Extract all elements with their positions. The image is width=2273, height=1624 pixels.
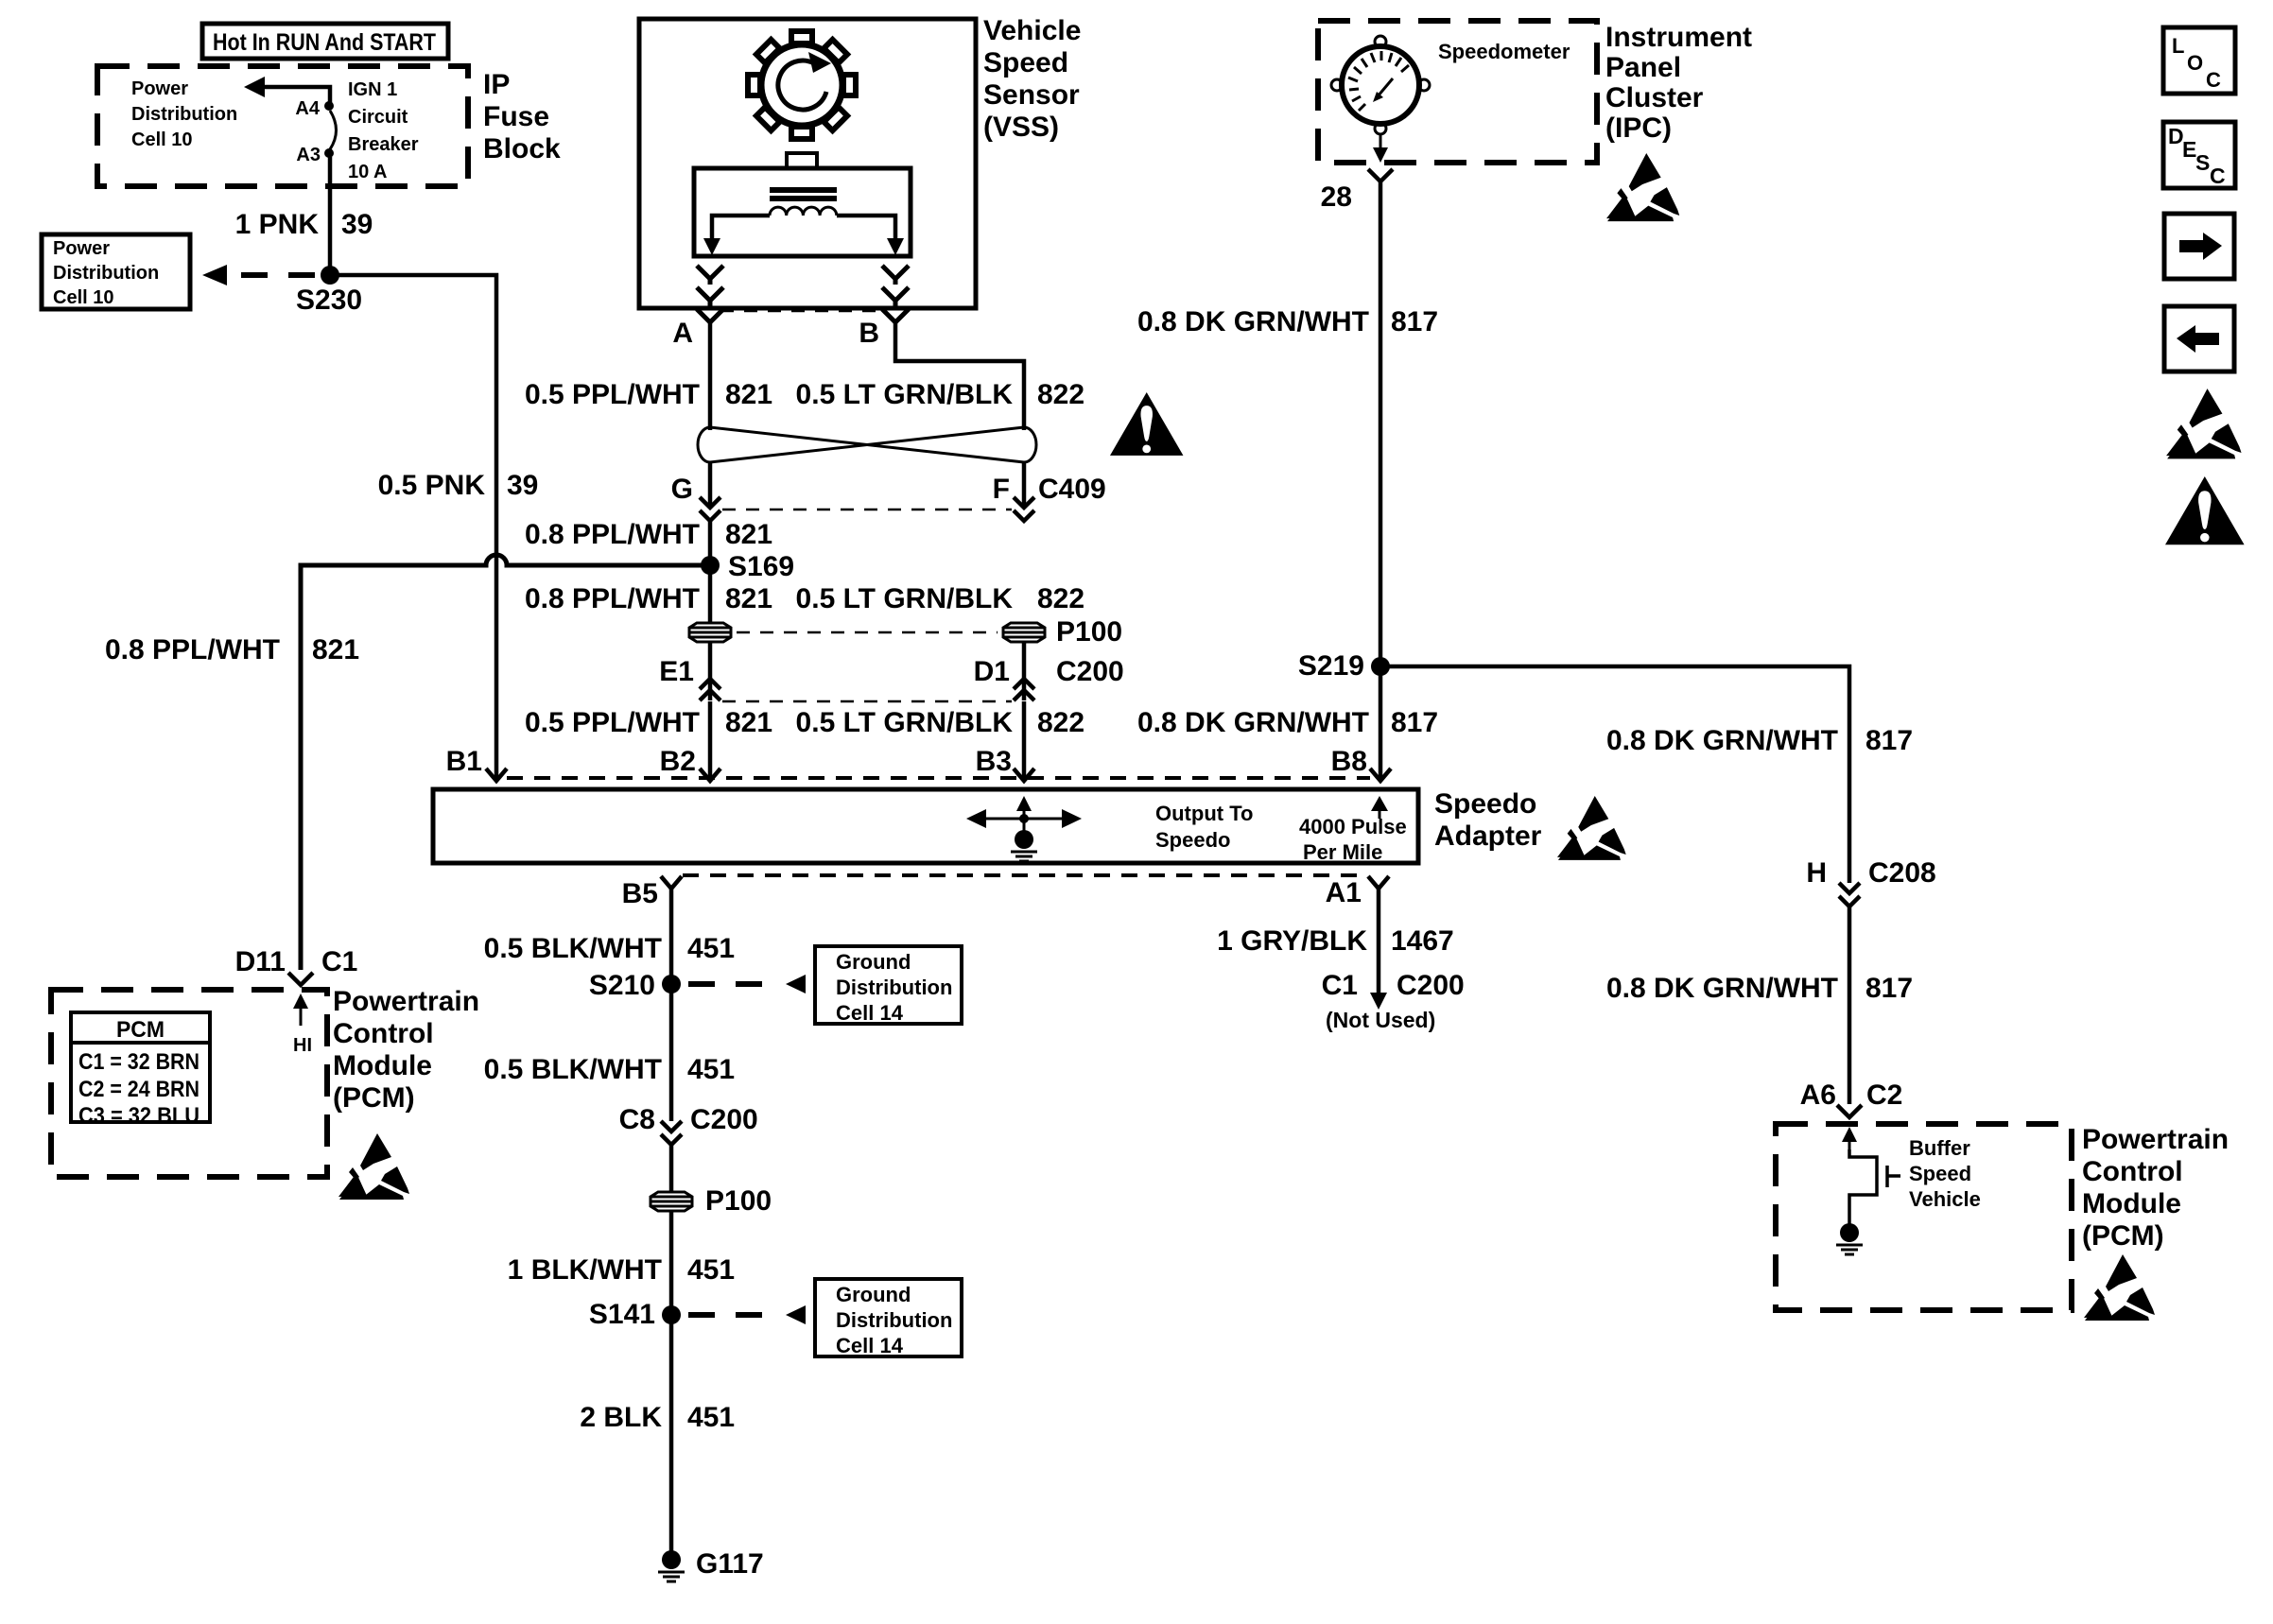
Ground Distribution Cell 14 box (lower) <box>815 1279 962 1357</box>
svg-text:Breaker: Breaker <box>348 134 419 155</box>
wire P100 to D1 <box>1022 642 1027 700</box>
svg-text:4000 Pulse: 4000 Pulse <box>1299 815 1407 838</box>
svg-text:0.5 LT GRN/BLK: 0.5 LT GRN/BLK <box>796 583 1014 614</box>
svg-text:Speedo: Speedo <box>1434 788 1536 820</box>
pin A4 <box>324 101 334 111</box>
svg-text:817: 817 <box>1391 707 1438 738</box>
HI input arrow inside PCM <box>300 1002 303 1026</box>
svg-text:C200: C200 <box>1397 970 1465 1001</box>
ESD symbol (PCM left) <box>338 1133 409 1200</box>
svg-text:C: C <box>2206 68 2221 92</box>
svg-text:C1: C1 <box>1322 970 1358 1001</box>
connector C200 pin E1 chevrons <box>700 679 720 700</box>
svg-text:C1: C1 <box>321 946 357 977</box>
connector A1 chevron <box>1368 876 1389 889</box>
warning triangle (twisted pair note) <box>1110 392 1183 456</box>
svg-text:Powertrain: Powertrain <box>2082 1124 2229 1155</box>
svg-text:2 BLK: 2 BLK <box>580 1402 662 1433</box>
wire G to S169 <box>708 521 713 565</box>
svg-text:C: C <box>2210 164 2226 188</box>
connector C409 pin F chevrons <box>1014 497 1034 521</box>
svg-text:D1: D1 <box>974 656 1010 687</box>
connector C2 pin A6 chevron <box>1837 1105 1862 1117</box>
svg-text:C3 = 32 BLU: C3 = 32 BLU <box>78 1103 200 1129</box>
svg-text:817: 817 <box>1865 973 1913 1004</box>
buffer input arrow inside PCM <box>1848 1135 1851 1149</box>
wire 28 to S219 <box>1379 181 1383 666</box>
svg-text:S141: S141 <box>589 1299 655 1330</box>
wire A3 to S230 <box>328 157 333 275</box>
svg-text:Ground: Ground <box>836 950 911 974</box>
inline connector P100 (ground path) <box>651 1192 692 1211</box>
connector 28 chevron <box>1368 169 1393 181</box>
wire S230 to corner and down to B1 <box>334 275 496 780</box>
dashed arrow S210 to ground distribution <box>688 981 781 987</box>
adapter top dashed line B1..B8 <box>507 776 1370 780</box>
svg-text:H: H <box>1806 857 1827 889</box>
node S169 <box>701 556 720 575</box>
svg-text:B5: B5 <box>622 878 658 909</box>
wire B (LT GRN/BLK) down, right, down <box>895 322 1024 430</box>
svg-text:Control: Control <box>2082 1156 2183 1187</box>
wire B twisted pair to C409 <box>1022 461 1027 507</box>
svg-text:0.5 PPL/WHT: 0.5 PPL/WHT <box>525 379 700 410</box>
svg-text:Module: Module <box>2082 1188 2181 1219</box>
node S219 <box>1371 657 1390 676</box>
P100 dashed link <box>737 631 998 634</box>
VSS pickup coil sensor symbol <box>694 153 911 256</box>
wire C208 to A6 <box>1848 907 1852 1104</box>
PCM (left) dashed box <box>51 990 327 1177</box>
svg-text:Buffer: Buffer <box>1909 1136 1970 1160</box>
connector B8 chevron <box>1370 769 1391 781</box>
svg-text:0.8 DK GRN/WHT: 0.8 DK GRN/WHT <box>1137 306 1369 337</box>
svg-text:Ground: Ground <box>836 1283 911 1306</box>
title box "Hot In RUN And START" <box>202 24 448 59</box>
svg-text:Module: Module <box>333 1050 432 1081</box>
svg-text:0.8 PPL/WHT: 0.8 PPL/WHT <box>105 634 280 665</box>
svg-text:822: 822 <box>1037 707 1084 738</box>
svg-text:0.5 PPL/WHT: 0.5 PPL/WHT <box>525 707 700 738</box>
svg-text:0.5 PNK: 0.5 PNK <box>378 470 486 501</box>
ESD symbol (IPC) <box>1606 153 1679 221</box>
svg-text:G117: G117 <box>696 1548 764 1580</box>
svg-text:C208: C208 <box>1868 857 1936 889</box>
connector C1 pin D11 chevron <box>288 973 313 985</box>
svg-text:10 A: 10 A <box>348 162 388 182</box>
PCM connector table <box>71 1012 210 1129</box>
svg-text:0.5 LT GRN/BLK: 0.5 LT GRN/BLK <box>796 379 1014 410</box>
svg-text:B8: B8 <box>1331 746 1367 777</box>
svg-text:(Not Used): (Not Used) <box>1326 1008 1435 1032</box>
svg-text:451: 451 <box>687 933 735 964</box>
svg-text:Cell 10: Cell 10 <box>131 130 192 150</box>
svg-text:821: 821 <box>725 379 772 410</box>
sidebar forward arrow box <box>2164 214 2234 279</box>
pin A chevron <box>697 309 723 322</box>
PCM (right) dashed box <box>1776 1124 2072 1310</box>
svg-text:S230: S230 <box>296 285 362 316</box>
node S141 <box>662 1305 681 1324</box>
svg-text:(PCM): (PCM) <box>2082 1220 2164 1252</box>
svg-text:B1: B1 <box>446 746 482 777</box>
svg-text:1 PNK: 1 PNK <box>235 209 320 240</box>
connector B5 chevron <box>661 876 682 889</box>
svg-text:Per Mile: Per Mile <box>1303 840 1382 864</box>
svg-text:S210: S210 <box>589 970 655 1001</box>
svg-text:Block: Block <box>483 133 561 164</box>
svg-text:L: L <box>2172 34 2184 58</box>
svg-text:C2 = 24 BRN: C2 = 24 BRN <box>78 1077 200 1102</box>
svg-text:Cluster: Cluster <box>1605 82 1704 113</box>
wire E1 to B2 <box>708 701 713 781</box>
wire S169 branch to PCM (horizontal with hop over 0.5 PNK wire) <box>301 555 710 970</box>
svg-text:821: 821 <box>312 634 359 665</box>
svg-text:1 GRY/BLK: 1 GRY/BLK <box>1217 925 1367 957</box>
connector B2 chevron <box>700 769 720 781</box>
svg-text:IGN 1: IGN 1 <box>348 79 397 100</box>
sidebar ESD symbol <box>2166 389 2242 458</box>
svg-text:B: B <box>859 318 879 349</box>
svg-text:821: 821 <box>725 519 772 550</box>
svg-text:O: O <box>2187 51 2203 75</box>
svg-text:Power: Power <box>53 238 110 259</box>
wire D1 to B3 <box>1022 701 1027 781</box>
wire S219 branch right and down to C208 <box>1380 666 1849 883</box>
pin A3 <box>324 148 334 158</box>
svg-text:A6: A6 <box>1800 1080 1836 1111</box>
Instrument Panel Cluster dashed box <box>1318 21 1597 163</box>
wire S169 to P100 <box>708 565 713 623</box>
svg-text:Distribution: Distribution <box>53 263 159 284</box>
svg-text:Powertrain: Powertrain <box>333 986 479 1017</box>
connector C200 pin D1 chevrons <box>1014 679 1034 700</box>
ESD symbol (speedo adapter) <box>1557 796 1626 860</box>
svg-text:G: G <box>671 474 693 505</box>
ESD symbol (PCM right) <box>2084 1254 2155 1321</box>
svg-text:0.8 DK GRN/WHT: 0.8 DK GRN/WHT <box>1606 725 1838 756</box>
dashed arrow S141 to ground distribution <box>688 1312 781 1318</box>
svg-text:S: S <box>2195 150 2210 175</box>
svg-text:Control: Control <box>333 1018 434 1049</box>
svg-text:0.5 BLK/WHT: 0.5 BLK/WHT <box>484 933 662 964</box>
circuit breaker IGN 1 arc <box>330 111 337 149</box>
wire B5 to S210 <box>669 889 674 984</box>
svg-text:821: 821 <box>725 583 772 614</box>
sidebar LOC box <box>2163 27 2235 94</box>
svg-text:E1: E1 <box>659 656 694 687</box>
svg-text:0.8 DK GRN/WHT: 0.8 DK GRN/WHT <box>1137 707 1369 738</box>
svg-text:Instrument: Instrument <box>1605 22 1752 53</box>
svg-text:A4: A4 <box>295 98 320 119</box>
node S230 <box>321 266 339 285</box>
pin B chevron <box>882 309 909 322</box>
svg-text:Speed: Speed <box>983 47 1068 78</box>
twisted pair symbol <box>698 427 1036 462</box>
sidebar DESC box <box>2163 122 2235 188</box>
inline connector P100 (right, on 822 wire) <box>1003 623 1045 642</box>
svg-text:(IPC): (IPC) <box>1605 112 1672 144</box>
svg-text:Sensor: Sensor <box>983 79 1080 111</box>
svg-text:S219: S219 <box>1298 650 1364 682</box>
svg-text:C2: C2 <box>1866 1080 1902 1111</box>
svg-text:C200: C200 <box>690 1104 758 1135</box>
connector B3 chevron <box>1014 769 1034 781</box>
connector chevrons below sensor (pins A and B) <box>697 266 909 308</box>
connector C409 pin G chevrons <box>700 497 720 521</box>
svg-text:Cell 14: Cell 14 <box>836 1001 904 1025</box>
wire A1 down (not used) <box>1377 889 1381 1000</box>
sidebar warning triangle <box>2165 476 2245 544</box>
svg-text:(VSS): (VSS) <box>983 112 1059 143</box>
wire speedometer to pin 28 <box>1379 134 1382 154</box>
svg-text:B3: B3 <box>976 746 1012 777</box>
adapter internal ground <box>1011 830 1037 861</box>
svg-text:Fuse: Fuse <box>483 101 549 132</box>
svg-text:28: 28 <box>1321 181 1352 213</box>
svg-text:822: 822 <box>1037 379 1084 410</box>
inline connector P100 (left, on 821 wire) <box>689 623 731 642</box>
svg-text:C1 = 32 BRN: C1 = 32 BRN <box>78 1049 200 1075</box>
svg-text:B2: B2 <box>660 746 696 777</box>
svg-text:A: A <box>672 318 693 349</box>
svg-text:Circuit: Circuit <box>348 107 408 128</box>
svg-text:HI: HI <box>293 1035 312 1056</box>
svg-text:A3: A3 <box>296 145 321 165</box>
svg-text:C409: C409 <box>1038 474 1106 505</box>
connector B1 chevron <box>486 769 507 781</box>
connector C208 pin H chevrons <box>1839 883 1860 907</box>
svg-text:(PCM): (PCM) <box>333 1082 415 1114</box>
svg-text:Speedo: Speedo <box>1155 828 1230 852</box>
adapter internal up arrow (B8 output) <box>1379 807 1381 819</box>
wire P100 to S141 <box>669 1211 674 1315</box>
connector C409 dashed line <box>722 509 1012 511</box>
wire S219 to B8 <box>1379 666 1383 781</box>
svg-text:Cell 10: Cell 10 <box>53 287 113 308</box>
svg-text:F: F <box>993 474 1010 505</box>
Ground Distribution Cell 14 box (upper) <box>815 946 962 1025</box>
svg-text:Power: Power <box>131 78 188 99</box>
svg-text:A1: A1 <box>1326 877 1362 908</box>
svg-text:Vehicle: Vehicle <box>1909 1187 1981 1211</box>
svg-text:1 BLK/WHT: 1 BLK/WHT <box>508 1254 662 1286</box>
svg-text:IP: IP <box>483 69 510 100</box>
svg-text:822: 822 <box>1037 583 1084 614</box>
wire S141 to G117 <box>669 1315 674 1560</box>
svg-text:39: 39 <box>341 209 373 240</box>
wire from A4 to power distribution arrow <box>257 87 330 104</box>
svg-text:821: 821 <box>725 707 772 738</box>
reluctor gear (tone wheel) <box>748 31 856 139</box>
svg-text:0.5 BLK/WHT: 0.5 BLK/WHT <box>484 1054 662 1085</box>
svg-text:Output To: Output To <box>1155 802 1253 825</box>
svg-text:817: 817 <box>1391 306 1438 337</box>
svg-text:C8: C8 <box>619 1104 655 1135</box>
svg-text:Adapter: Adapter <box>1434 821 1542 852</box>
svg-text:451: 451 <box>687 1254 735 1286</box>
Power Distribution Cell 10 box (left reference box) <box>42 234 190 309</box>
svg-text:39: 39 <box>507 470 538 501</box>
svg-text:451: 451 <box>687 1054 735 1085</box>
svg-text:Distribution: Distribution <box>131 104 237 125</box>
svg-text:0.8 DK GRN/WHT: 0.8 DK GRN/WHT <box>1606 973 1838 1004</box>
sidebar back arrow box <box>2164 306 2234 371</box>
internal ground (PCM right) <box>1836 1223 1863 1254</box>
svg-text:451: 451 <box>687 1402 735 1433</box>
connector C200 dashed line <box>722 700 1012 703</box>
svg-text:Cell 14: Cell 14 <box>836 1334 904 1357</box>
speedometer gauge <box>1331 36 1430 134</box>
svg-text:Vehicle: Vehicle <box>983 15 1081 46</box>
adapter bottom dashed line B5..A1 <box>683 873 1368 877</box>
wire P100 to E1 <box>708 642 713 700</box>
connector C200 pin C8 chevrons <box>661 1121 682 1145</box>
dashed arrow S230 to Power Distribution box <box>241 272 323 278</box>
svg-text:P100: P100 <box>705 1185 772 1217</box>
adapter internal 4-way arrow <box>966 796 1082 839</box>
wire A twisted pair to C409 <box>708 461 713 507</box>
svg-text:1467: 1467 <box>1391 925 1454 957</box>
Speedo Adapter box <box>433 789 1418 863</box>
VSS box <box>639 19 976 308</box>
svg-text:C200: C200 <box>1056 656 1124 687</box>
svg-text:Distribution: Distribution <box>836 976 952 999</box>
IP Fuse Block dashed box <box>97 66 468 186</box>
svg-text:0.5 LT GRN/BLK: 0.5 LT GRN/BLK <box>796 707 1014 738</box>
node S210 <box>662 975 681 993</box>
svg-text:0.8 PPL/WHT: 0.8 PPL/WHT <box>525 583 700 614</box>
ground G117 <box>658 1550 685 1581</box>
svg-text:P100: P100 <box>1056 616 1122 648</box>
svg-text:PCM: PCM <box>116 1017 165 1043</box>
svg-text:D11: D11 <box>235 946 286 977</box>
svg-text:Speedometer: Speedometer <box>1438 40 1570 63</box>
wire S210 to C8 <box>669 984 674 1121</box>
svg-text:Hot In RUN And START: Hot In RUN And START <box>213 29 436 56</box>
svg-text:817: 817 <box>1865 725 1913 756</box>
svg-text:Panel: Panel <box>1605 52 1681 83</box>
wire A (PPL/WHT) down to twisted pair <box>708 322 713 430</box>
connector A/B dashed line below box <box>720 310 885 313</box>
svg-text:0.8 PPL/WHT: 0.8 PPL/WHT <box>525 519 700 550</box>
transistor buffer (speed vehicle) <box>1849 1149 1900 1224</box>
wire C8 to P100 <box>669 1145 674 1193</box>
svg-text:S169: S169 <box>728 551 794 582</box>
svg-text:Speed: Speed <box>1909 1162 1971 1185</box>
svg-text:Distribution: Distribution <box>836 1308 952 1332</box>
